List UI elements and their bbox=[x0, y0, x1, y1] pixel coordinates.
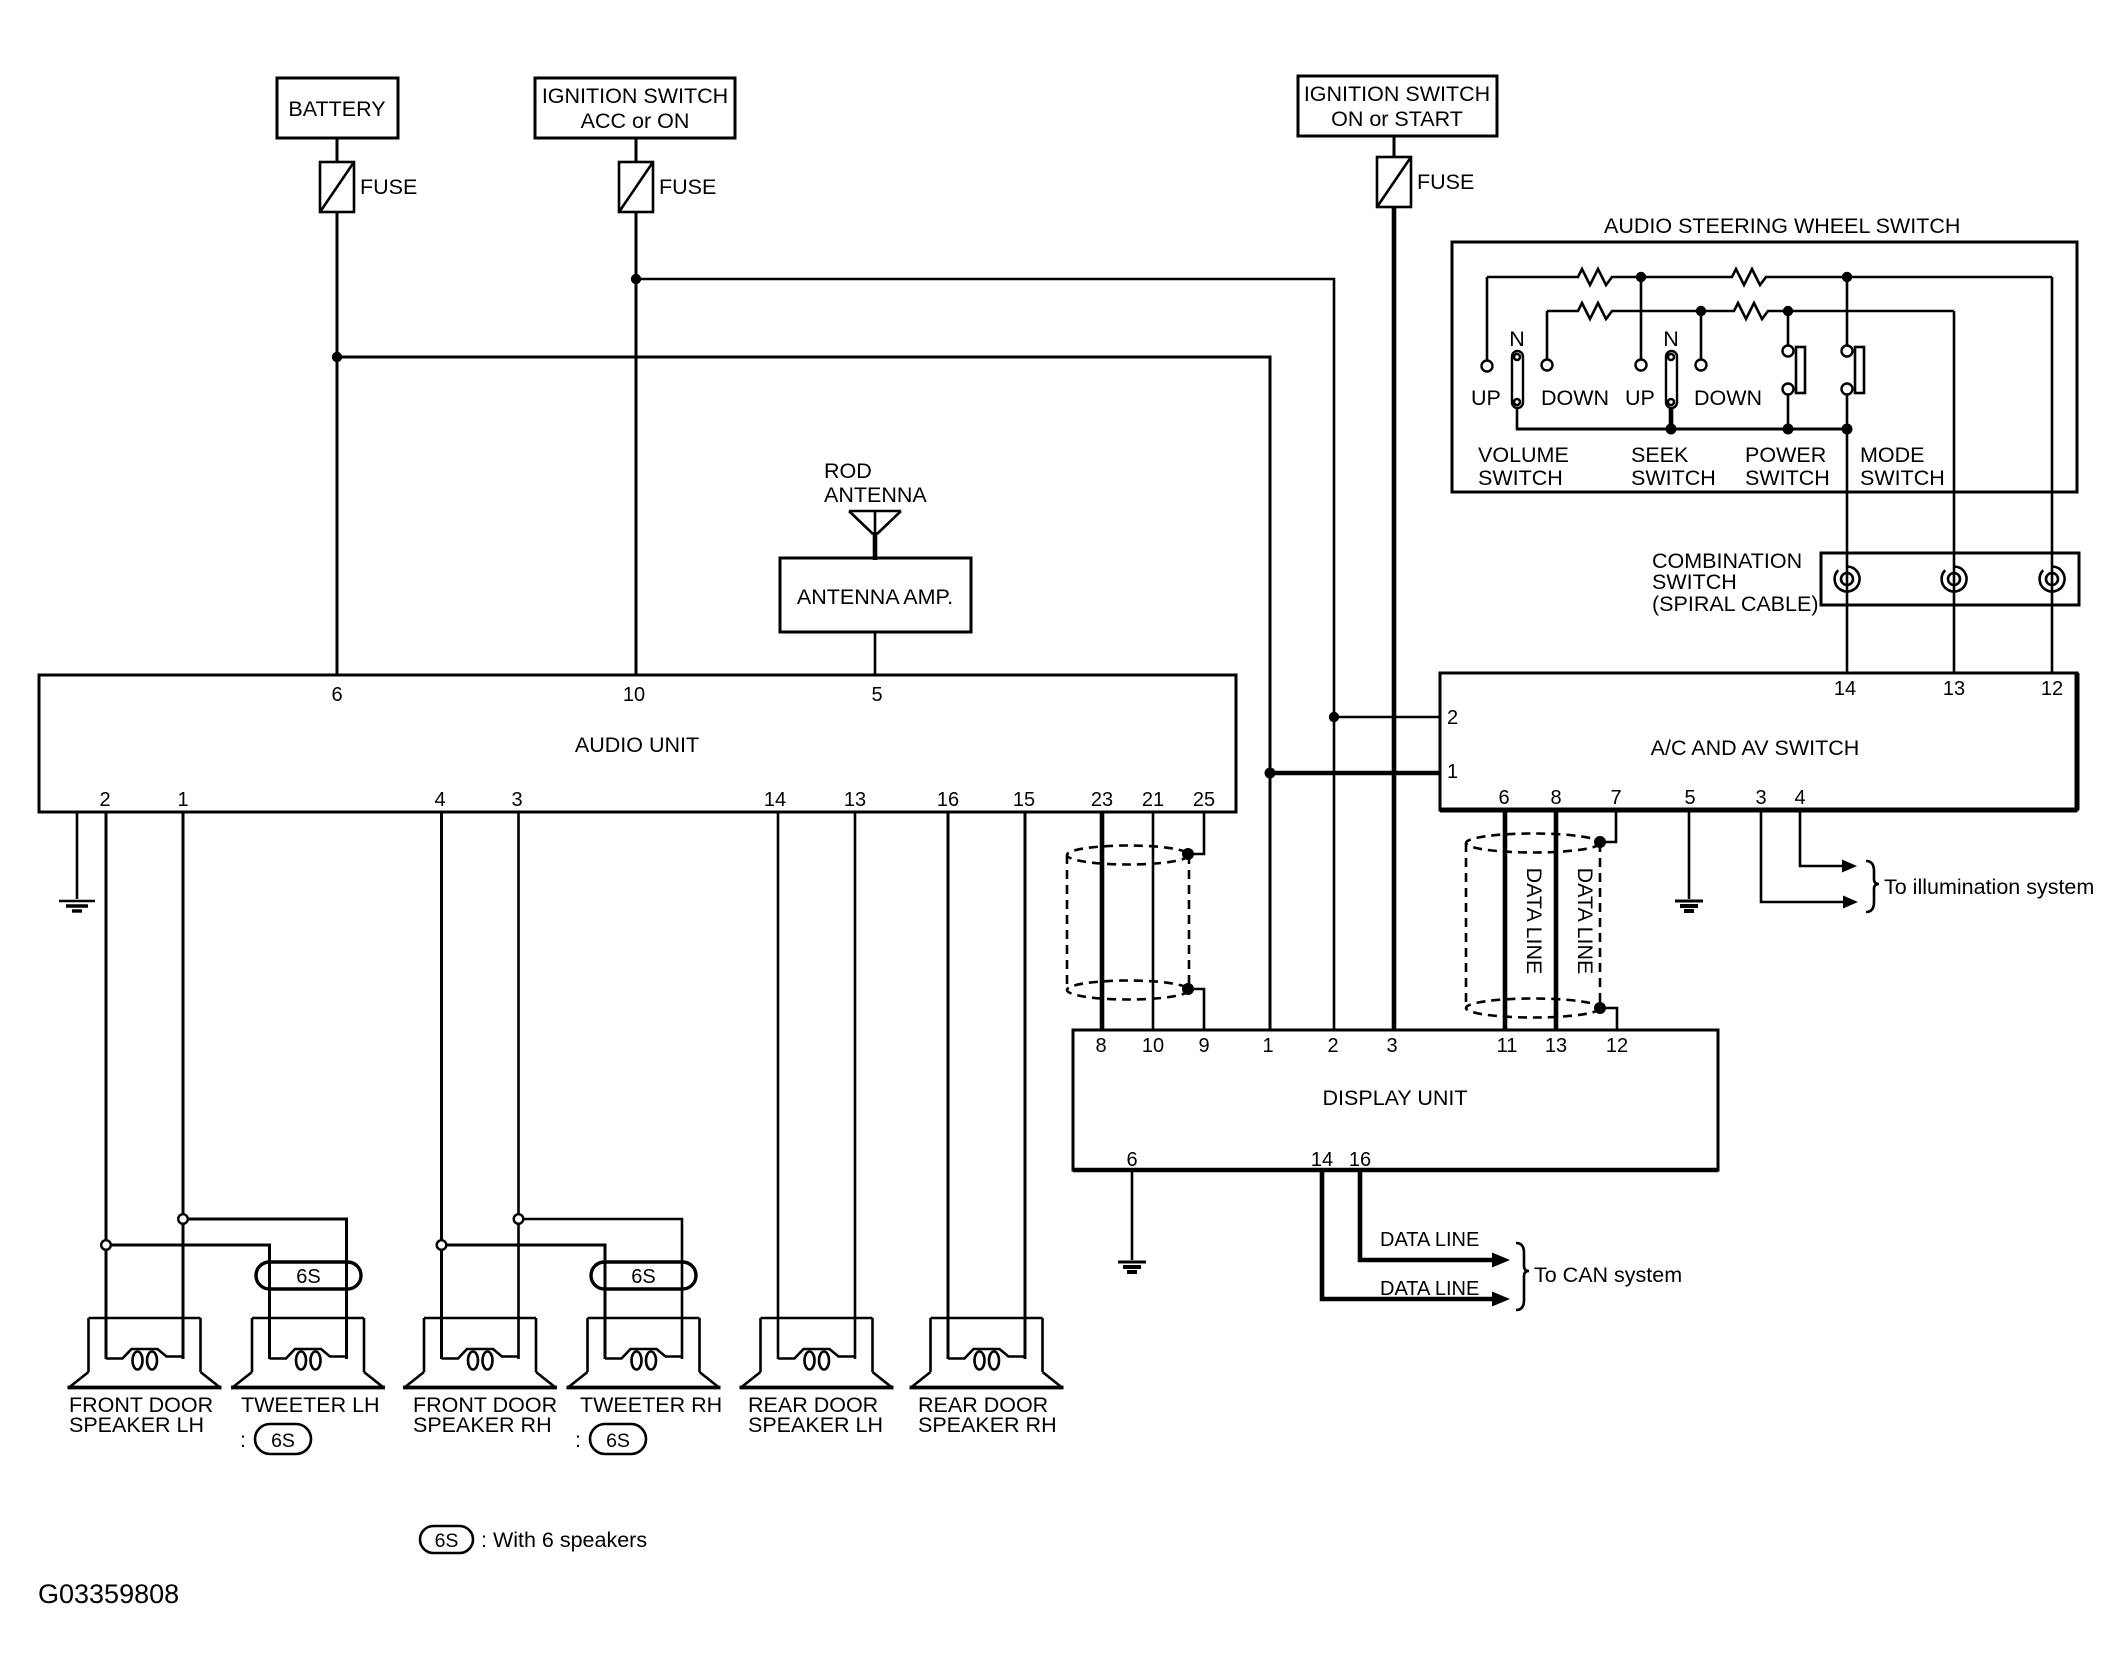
junction ACC feed node bbox=[631, 274, 641, 284]
svg-text:IGNITION SWITCH: IGNITION SWITCH bbox=[542, 84, 728, 108]
audio unit bbox=[39, 675, 1236, 812]
svg-text:TWEETER RH: TWEETER RH bbox=[580, 1393, 722, 1417]
label ROD ANTENNA bbox=[824, 459, 927, 507]
svg-text:FUSE: FUSE bbox=[360, 175, 417, 199]
wire ign ACC to fuse F2 bbox=[635, 138, 638, 162]
svg-text:3: 3 bbox=[1386, 1035, 1397, 1057]
svg-text::: : bbox=[575, 1428, 581, 1452]
svg-text:To CAN system: To CAN system bbox=[1534, 1263, 1682, 1287]
contact mode lower bbox=[1842, 384, 1853, 395]
junction common seek bbox=[1666, 424, 1677, 435]
svg-text:ANTENNA: ANTENNA bbox=[824, 483, 927, 507]
wire audio pin 3 to front door speaker RH bbox=[517, 812, 520, 1359]
svg-text:SPEAKER RH: SPEAKER RH bbox=[918, 1413, 1057, 1437]
svg-text:3: 3 bbox=[511, 789, 522, 811]
wire F1 to audio unit pin 6 bbox=[336, 212, 339, 675]
wire row2 to combination pin 13 bbox=[1953, 311, 1956, 673]
wire F3 to display unit pin 3 bbox=[1392, 207, 1397, 1030]
resistor row 1 with resistors R1 R2 bbox=[1487, 269, 2052, 285]
tweeter RH bbox=[567, 1318, 721, 1388]
arrow CAN lower bbox=[1492, 1292, 1510, 1307]
contact seek down bbox=[1696, 360, 1707, 371]
svg-text:13: 13 bbox=[844, 789, 866, 811]
wire battery feed to A/C and display (horizontal) bbox=[337, 357, 1270, 1030]
note 6S with 6 speakers bbox=[420, 1526, 647, 1553]
wire mode upper stub bbox=[1846, 277, 1849, 345]
svg-text:FUSE: FUSE bbox=[1417, 170, 1474, 194]
fuse F1 bbox=[320, 162, 354, 212]
shielded cable (audio to display) bbox=[1067, 846, 1189, 1000]
svg-text:DATA LINE: DATA LINE bbox=[1522, 868, 1546, 975]
svg-text:10: 10 bbox=[1142, 1035, 1164, 1057]
svg-text:DATA LINE: DATA LINE bbox=[1380, 1229, 1479, 1251]
wire audio pin 14 to rear door speaker LH bbox=[777, 812, 780, 1359]
svg-text:2: 2 bbox=[1327, 1035, 1338, 1057]
svg-text:SWITCH: SWITCH bbox=[1478, 466, 1563, 490]
contact volume down bbox=[1542, 360, 1553, 371]
wire shield to display pin 12 bbox=[1600, 1008, 1617, 1030]
contact power lower bbox=[1783, 384, 1794, 395]
svg-text:13: 13 bbox=[1943, 678, 1965, 700]
spiral contact 3 bbox=[2040, 567, 2065, 592]
junction row1 seek bbox=[1636, 272, 1646, 282]
svg-text:6: 6 bbox=[1498, 787, 1509, 809]
junction at A/C pin 1 branch bbox=[1265, 768, 1276, 779]
svg-text:1: 1 bbox=[1262, 1035, 1273, 1057]
svg-text:13: 13 bbox=[1545, 1035, 1567, 1057]
svg-text::: : bbox=[240, 1428, 246, 1452]
junction at A/C pin 2 branch bbox=[1329, 712, 1339, 722]
brace illumination bbox=[1866, 861, 1879, 912]
svg-text:14: 14 bbox=[1834, 678, 1856, 700]
svg-text:G03359808: G03359808 bbox=[38, 1579, 179, 1609]
note 6S (tweeter RH) bbox=[575, 1424, 646, 1454]
wire power lower stub bbox=[1787, 395, 1790, 429]
svg-text:SPEAKER LH: SPEAKER LH bbox=[748, 1413, 883, 1437]
wire battery to fuse F1 bbox=[336, 138, 339, 162]
svg-text:(SPIRAL CABLE): (SPIRAL CABLE) bbox=[1652, 592, 1818, 616]
svg-text:ROD: ROD bbox=[824, 459, 872, 483]
svg-text:15: 15 bbox=[1013, 789, 1035, 811]
wire audio pin 23 to display pin 8 bbox=[1100, 812, 1105, 1030]
junction common mode bbox=[1842, 424, 1853, 435]
wire A/C pin 8 to display pin 13 (data line) bbox=[1554, 810, 1559, 1030]
junction row2 seek bbox=[1696, 306, 1706, 316]
spiral contact 1 bbox=[1835, 567, 1860, 592]
svg-text:6S: 6S bbox=[606, 1430, 630, 1452]
svg-text:SWITCH: SWITCH bbox=[1745, 466, 1830, 490]
contact power upper bbox=[1783, 346, 1794, 357]
svg-text:IGNITION SWITCH: IGNITION SWITCH bbox=[1304, 82, 1490, 106]
ground (audio unit) bbox=[59, 901, 95, 911]
svg-text:14: 14 bbox=[764, 789, 786, 811]
wire antenna amp to audio unit pin 5 bbox=[874, 632, 877, 675]
note 6S (tweeter LH) bbox=[240, 1424, 311, 1454]
arrow to illumination (lower) bbox=[1843, 896, 1858, 909]
svg-text:DISPLAY UNIT: DISPLAY UNIT bbox=[1323, 1086, 1468, 1110]
wire audio pin 2 to front door speaker LH bbox=[105, 812, 108, 1359]
label MODE SWITCH bbox=[1860, 443, 1945, 490]
antenna amp bbox=[780, 558, 971, 632]
connector node front LH minus bbox=[101, 1240, 111, 1250]
svg-text:6S: 6S bbox=[631, 1266, 655, 1288]
svg-text:6S: 6S bbox=[296, 1266, 320, 1288]
svg-text:10: 10 bbox=[623, 684, 645, 706]
ground (A/C pin 5) bbox=[1675, 901, 1703, 911]
svg-text:AUDIO UNIT: AUDIO UNIT bbox=[575, 733, 699, 757]
wire A/C pin 4 to illumination bbox=[1800, 810, 1843, 866]
svg-text:AUDIO STEERING WHEEL SWITCH: AUDIO STEERING WHEEL SWITCH bbox=[1604, 214, 1960, 238]
A/C and AV switch bbox=[1440, 673, 2077, 810]
wire A/C pin 3 to illumination bbox=[1761, 810, 1844, 902]
wire audio pin 4 to front door speaker RH bbox=[440, 812, 443, 1359]
wire row1 to combination pin 12 bbox=[2051, 277, 2054, 673]
svg-text:SPEAKER RH: SPEAKER RH bbox=[413, 1413, 552, 1437]
wire audio pin 13 to rear door speaker LH bbox=[854, 812, 857, 1359]
spiral contact 2 bbox=[1942, 567, 1967, 592]
battery bbox=[277, 78, 398, 138]
svg-text:BATTERY: BATTERY bbox=[288, 97, 385, 121]
label FRONT DOOR SPEAKER LH bbox=[69, 1393, 213, 1437]
arrow to illumination (upper) bbox=[1842, 860, 1857, 873]
svg-text:SEEK: SEEK bbox=[1631, 443, 1689, 467]
label FRONT DOOR SPEAKER RH bbox=[413, 1393, 557, 1437]
wire volume spring to common bbox=[1516, 408, 1519, 430]
svg-text:2: 2 bbox=[1447, 707, 1458, 729]
svg-text:3: 3 bbox=[1755, 787, 1766, 809]
contact volume up bbox=[1482, 361, 1493, 372]
svg-text:: With 6 speakers: : With 6 speakers bbox=[481, 1528, 647, 1552]
wire A/C pin 6 to display pin 11 (data line) bbox=[1503, 810, 1508, 1030]
svg-text:25: 25 bbox=[1193, 789, 1215, 811]
wire display pin 16 data line to CAN bbox=[1360, 1170, 1494, 1260]
wire branch to A/C pin 1 bbox=[1270, 771, 1440, 776]
svg-text:4: 4 bbox=[1794, 787, 1805, 809]
svg-text:FUSE: FUSE bbox=[659, 175, 716, 199]
resistor row 2 with resistors R3 R4 bbox=[1547, 303, 1954, 319]
display unit bbox=[1073, 1030, 1718, 1170]
wire branch to tweeter LH (minus) bbox=[106, 1245, 270, 1359]
wire volume up stub bbox=[1486, 277, 1489, 360]
svg-text:DATA LINE: DATA LINE bbox=[1573, 868, 1597, 975]
wire shield to display pin 9 bbox=[1188, 989, 1204, 1030]
wire audio pin 21 to display pin 10 bbox=[1152, 812, 1155, 1030]
svg-text:SWITCH: SWITCH bbox=[1631, 466, 1716, 490]
wire F2 to audio unit pin 10 bbox=[635, 212, 638, 675]
wire branch to tweeter RH (minus) bbox=[442, 1245, 606, 1359]
svg-text:SPEAKER LH: SPEAKER LH bbox=[69, 1413, 204, 1437]
svg-text:11: 11 bbox=[1497, 1035, 1518, 1057]
svg-text:VOLUME: VOLUME bbox=[1478, 443, 1569, 467]
svg-text:DATA LINE: DATA LINE bbox=[1380, 1278, 1479, 1300]
svg-text:4: 4 bbox=[434, 789, 445, 811]
power switch bar bbox=[1796, 347, 1805, 393]
wire display pin 6 to ground bbox=[1131, 1170, 1134, 1260]
wire audio pin 16 to rear door speaker RH bbox=[947, 812, 950, 1359]
wire ACC feed to A/C and display (horizontal) bbox=[636, 279, 1334, 1030]
svg-text:23: 23 bbox=[1091, 789, 1113, 811]
wire volume down stub bbox=[1546, 311, 1549, 359]
svg-text:14: 14 bbox=[1311, 1149, 1333, 1171]
junction shield bottom (audio) bbox=[1182, 983, 1194, 995]
audio steering wheel switch box bbox=[1452, 242, 2077, 492]
svg-text:16: 16 bbox=[1349, 1149, 1371, 1171]
svg-text:6S: 6S bbox=[435, 1530, 459, 1552]
fuse F2 bbox=[619, 162, 653, 212]
label REAR DOOR SPEAKER LH bbox=[748, 1393, 883, 1437]
ground (display pin 6) bbox=[1118, 1262, 1146, 1272]
arrow CAN upper bbox=[1492, 1253, 1510, 1268]
svg-text:UP: UP bbox=[1625, 386, 1655, 410]
volume detent spring bbox=[1512, 351, 1523, 408]
wire A/C pin 7 to shield bbox=[1600, 810, 1616, 842]
brace CAN bbox=[1516, 1243, 1529, 1310]
ignition switch ON or START bbox=[1298, 76, 1497, 136]
mode switch bar bbox=[1855, 347, 1864, 393]
wire audio ground bbox=[76, 812, 79, 899]
fuse F3 bbox=[1377, 157, 1411, 207]
contact mode upper bbox=[1842, 346, 1853, 357]
wire mode common to combination pin 14 bbox=[1846, 429, 1849, 673]
svg-text:DOWN: DOWN bbox=[1694, 386, 1762, 410]
svg-text:6S: 6S bbox=[271, 1430, 295, 1452]
wire seek up stub bbox=[1640, 277, 1643, 359]
svg-text:TWEETER LH: TWEETER LH bbox=[241, 1393, 380, 1417]
wire audio pin 25 to shield bbox=[1188, 812, 1204, 854]
ignition switch ACC or ON bbox=[535, 78, 735, 138]
svg-text:8: 8 bbox=[1550, 787, 1561, 809]
svg-text:21: 21 bbox=[1142, 789, 1164, 811]
label VOLUME SWITCH bbox=[1478, 443, 1569, 490]
svg-text:16: 16 bbox=[937, 789, 959, 811]
svg-text:7: 7 bbox=[1610, 787, 1621, 809]
svg-text:UP: UP bbox=[1471, 386, 1501, 410]
svg-text:5: 5 bbox=[1684, 787, 1695, 809]
junction row2 power bbox=[1783, 306, 1793, 316]
junction shield top (data) bbox=[1594, 836, 1606, 848]
svg-text:To illumination system: To illumination system bbox=[1884, 875, 2094, 899]
wire power upper stub bbox=[1787, 311, 1790, 345]
junction shield top (audio) bbox=[1182, 848, 1194, 860]
wire seek spring to common bbox=[1669, 408, 1674, 429]
svg-text:6: 6 bbox=[331, 684, 342, 706]
svg-text:6: 6 bbox=[1126, 1149, 1137, 1171]
svg-text:N: N bbox=[1509, 327, 1525, 351]
connector node front RH plus bbox=[514, 1214, 524, 1224]
seek detent spring bbox=[1666, 351, 1677, 408]
svg-text:DOWN: DOWN bbox=[1541, 386, 1609, 410]
front door speaker LH bbox=[68, 1318, 222, 1388]
shielded cable (A/C data lines) bbox=[1466, 834, 1600, 1018]
front door speaker RH bbox=[403, 1318, 557, 1388]
svg-text:POWER: POWER bbox=[1745, 443, 1826, 467]
label POWER SWITCH bbox=[1745, 443, 1830, 490]
svg-text:SWITCH: SWITCH bbox=[1652, 570, 1737, 594]
wire branch to A/C pin 2 bbox=[1334, 716, 1440, 719]
wire A/C pin 5 to ground bbox=[1688, 810, 1691, 899]
label REAR DOOR SPEAKER RH bbox=[918, 1393, 1057, 1437]
svg-text:5: 5 bbox=[871, 684, 882, 706]
wire mode lower stub bbox=[1846, 395, 1849, 429]
svg-text:MODE: MODE bbox=[1860, 443, 1925, 467]
junction battery feed node bbox=[332, 352, 342, 362]
6S connector pill (tweeter RH) bbox=[591, 1262, 696, 1289]
rod antenna symbol bbox=[849, 511, 901, 560]
contact seek up bbox=[1636, 360, 1647, 371]
wire audio pin 15 to rear door speaker RH bbox=[1024, 812, 1027, 1359]
wire branch to tweeter RH (plus) bbox=[519, 1219, 683, 1359]
tweeter LH bbox=[231, 1318, 385, 1388]
wire audio pin 1 to front door speaker LH bbox=[182, 812, 185, 1359]
svg-text:A/C AND AV SWITCH: A/C AND AV SWITCH bbox=[1651, 736, 1860, 760]
svg-text:9: 9 bbox=[1198, 1035, 1209, 1057]
svg-text:12: 12 bbox=[1606, 1035, 1628, 1057]
common return row bbox=[1516, 428, 1847, 431]
svg-text:1: 1 bbox=[177, 789, 188, 811]
junction common power bbox=[1783, 424, 1794, 435]
junction row1 mode bbox=[1842, 272, 1852, 282]
svg-text:ACC or ON: ACC or ON bbox=[581, 109, 690, 133]
label COMBINATION SWITCH (SPIRAL CABLE) bbox=[1652, 549, 1818, 616]
svg-text:12: 12 bbox=[2041, 678, 2063, 700]
label SEEK SWITCH bbox=[1631, 443, 1716, 490]
junction shield bottom (data) bbox=[1594, 1002, 1606, 1014]
rear door speaker LH bbox=[740, 1318, 894, 1388]
wire branch to tweeter LH (plus) bbox=[183, 1219, 347, 1359]
svg-text:2: 2 bbox=[99, 789, 110, 811]
connector node front LH plus bbox=[178, 1214, 188, 1224]
svg-text:ON or START: ON or START bbox=[1331, 107, 1463, 131]
6S connector pill (tweeter LH) bbox=[256, 1262, 361, 1289]
wire ign ON to fuse F3 bbox=[1393, 136, 1396, 157]
svg-text:N: N bbox=[1663, 327, 1679, 351]
svg-text:8: 8 bbox=[1095, 1035, 1106, 1057]
wire seek down stub bbox=[1700, 311, 1703, 359]
connector node front RH minus bbox=[437, 1240, 447, 1250]
combination switch (spiral cable) box bbox=[1821, 553, 2079, 605]
rear door speaker RH bbox=[910, 1318, 1064, 1388]
svg-text:1: 1 bbox=[1447, 761, 1458, 783]
wire display pin 14 data line to CAN bbox=[1322, 1170, 1494, 1299]
svg-text:ANTENNA AMP.: ANTENNA AMP. bbox=[797, 585, 953, 609]
svg-text:SWITCH: SWITCH bbox=[1860, 466, 1945, 490]
